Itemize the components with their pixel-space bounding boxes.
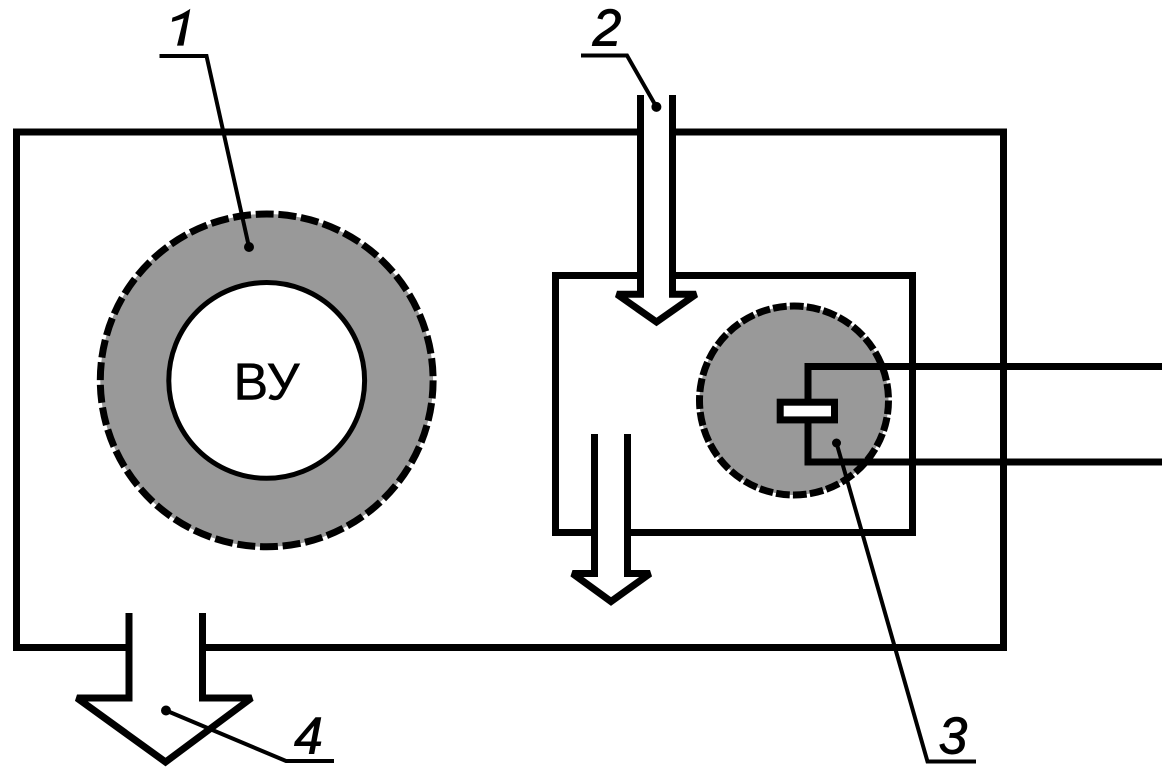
- svg-text:3: 3: [939, 707, 968, 765]
- svg-text:ВУ: ВУ: [234, 353, 301, 411]
- svg-text:2: 2: [592, 0, 622, 57]
- svg-text:4: 4: [294, 707, 323, 765]
